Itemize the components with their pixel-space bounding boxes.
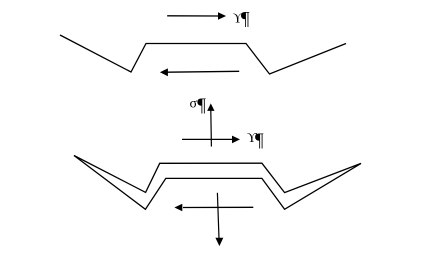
label: gamma-pilcrow top	[233, 9, 250, 30]
svg-text:¶: ¶	[197, 95, 206, 116]
arrow: bottom reaction shear (points left)	[174, 204, 253, 212]
bottom hat profile: outer (lower) line	[74, 156, 361, 210]
svg-text:¶: ¶	[241, 9, 250, 30]
arrow: axis vertical (points up)	[207, 103, 214, 146]
arrow: top reaction shear (points left)	[160, 68, 239, 76]
bottom hat profile: inner (upper) line	[74, 156, 361, 193]
arrow: bottom normal load (points down)	[215, 193, 223, 246]
label: gamma-pilcrow axis	[247, 130, 264, 151]
top hat profile polyline	[60, 35, 346, 74]
svg-text:¶: ¶	[255, 130, 264, 151]
arrow: top applied shear (points right)	[167, 12, 226, 20]
svg-text:σ: σ	[190, 96, 198, 111]
label: sigma-pilcrow axis	[190, 95, 207, 116]
arrow: axis horizontal (points right)	[182, 136, 240, 144]
